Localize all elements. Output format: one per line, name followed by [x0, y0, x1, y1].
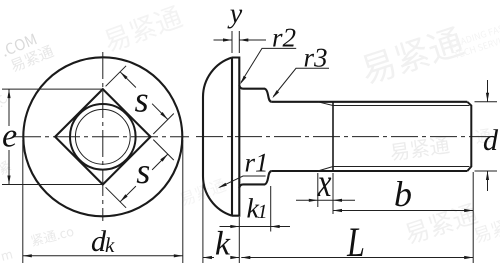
label y: [227, 10, 242, 29]
watermark left edge: [0, 94, 8, 107]
watermark on shank: [390, 135, 451, 161]
dimension dk extension lines: [23, 140, 183, 263]
dimension s (lower) line: [120, 154, 168, 202]
thread start line: [332, 102, 334, 171]
label k1: [247, 198, 259, 217]
square neck (rotated 45, front view): [55, 89, 150, 184]
watermark top-right: [358, 25, 465, 87]
watermark top-left: [1, 33, 37, 56]
shank circle d (front view): [70, 104, 136, 170]
watermark center: [178, 177, 227, 207]
label r2 with leader: [273, 29, 295, 47]
label s (lower): [137, 166, 150, 183]
watermark under circle: [30, 225, 74, 247]
dimension L line: [241, 257, 473, 259]
watermark bottom-right: [403, 202, 480, 246]
centerline (side view): [196, 136, 493, 138]
label x: [317, 178, 331, 196]
square neck with r2 and r3 fillets (bottom, side view): [239, 171, 271, 188]
centerline vertical (front view): [102, 52, 104, 221]
square neck with r2 and r3 fillets (top, side view): [239, 85, 271, 102]
thread root circle (front view): [75, 109, 130, 164]
label L: [347, 229, 364, 257]
label k: [216, 231, 231, 255]
label s (upper): [135, 95, 148, 112]
bolt head profile (dome, side view): [203, 58, 232, 216]
dimension s (lower) extension lines: [106, 140, 174, 208]
head outline circle dk (front view): [23, 57, 182, 216]
label r3 with leader: [305, 49, 327, 67]
dimension b extension line (right end): [472, 172, 474, 263]
label e: [3, 131, 16, 147]
dimension dk line: [23, 255, 183, 257]
dimension y line: [214, 39, 267, 41]
dimension s (upper) extension lines: [106, 66, 174, 134]
head rim and bearing face: [232, 58, 239, 216]
dimension d extension lines: [475, 102, 498, 171]
dimension k1 extension line: [270, 186, 272, 232]
dimension x line: [296, 199, 355, 201]
chamfered thread end: [467, 102, 471, 171]
label dk: [92, 230, 106, 251]
label r1 with leader: [246, 154, 266, 172]
dimension s (upper) line: [120, 72, 168, 120]
shank outline (top and bottom): [272, 102, 468, 171]
label b: [395, 181, 411, 206]
dimension k extension lines: [203, 180, 239, 263]
dimension k line: [203, 257, 239, 259]
dimension b line: [333, 210, 473, 212]
thread runout diagonals: [318, 102, 333, 171]
dimension x extension lines: [318, 173, 333, 214]
thread root lines: [333, 106, 469, 167]
centerline horizontal (front view): [14, 136, 189, 138]
dimension y extension lines: [232, 31, 239, 53]
dimension d line: [487, 80, 489, 191]
head sphere-rim junction line: [231, 58, 233, 216]
dimension e line: [8, 89, 10, 184]
dimension e extension lines: [2, 89, 103, 184]
dimension k1 line: [220, 226, 291, 228]
watermark top-middle: [101, 4, 184, 54]
label d: [484, 129, 498, 150]
